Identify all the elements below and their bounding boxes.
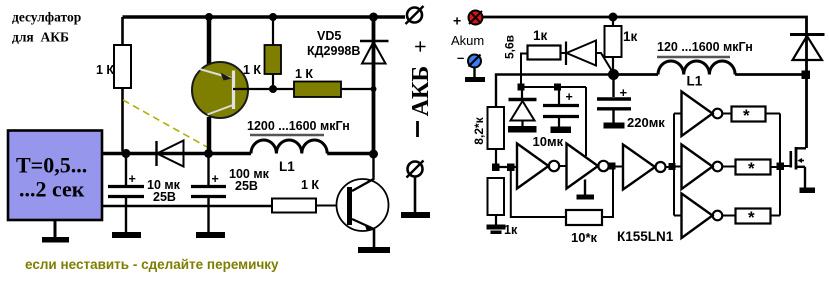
op-amp inverter U1E [682,145,723,190]
svg-text:*: * [748,159,755,178]
svg-text:Akum: Akum [451,33,484,48]
terminal -AKB output [407,161,424,178]
wire inv5 to R10 [722,166,735,168]
resistor R4 1 К [272,199,316,213]
wire Q1 collector to node B [207,117,212,154]
svg-text:+: + [212,172,219,186]
wire R11 to gate bus [771,215,781,217]
wire rail to R1 [121,17,124,45]
label underline L1 [250,134,324,137]
inductor L1 right [658,61,735,75]
wire terminal to bar [414,177,417,212]
transistor Q2 [337,154,389,231]
node M junction [554,84,561,91]
wire feedback left vertical [511,167,566,217]
ground Akum minus [465,68,485,83]
transistor Q3 mosfet [791,147,806,188]
svg-text:1к: 1к [504,223,518,237]
zener VD 5,6v [509,91,537,127]
label underline L1 right [657,56,730,59]
wire Q1 base [233,88,294,90]
op-amp inverter U1D [682,92,723,137]
wire R7 to ground [495,215,497,225]
wire inv1 to inv2 [559,165,567,167]
ground Q3 [800,188,816,194]
title десулфатор для АКБ [12,10,81,45]
wire R9 to gate bus [766,113,781,115]
svg-text:25В: 25В [235,179,258,193]
diode D1 [157,141,184,167]
resistor R8 10*к [566,210,602,225]
wire top rail [123,15,406,19]
svg-text:8,2*к: 8,2*к [472,116,486,144]
svg-text:1 К: 1 К [243,63,261,77]
svg-text:10мк: 10мк [533,134,564,149]
junction dot rail at R5 [609,13,618,22]
svg-text:*: * [743,106,750,125]
svg-text:АКБ: АКБ [408,66,434,117]
resistor R9 * [732,106,766,125]
wire inv4 to R9 [722,113,731,115]
wire to inv4 [674,113,682,115]
node C junction [369,150,378,159]
op-amp inverter U1F [682,194,723,239]
wire to inv6 [674,215,682,217]
svg-text:+: + [453,13,461,29]
wire inv3 out [666,166,675,168]
wire node F to inv1 [496,166,517,168]
ground C2 [196,232,225,238]
ground R7 [487,225,506,235]
ground timer box [42,221,69,243]
ground C1 [112,232,141,238]
label C2 100 мк 25В [229,167,270,193]
resistor R2 1 К [265,45,282,74]
inductor L1 left [251,140,327,154]
svg-text:+: + [620,85,628,100]
wire zener bus horizontal [521,86,586,88]
node G junction [507,164,515,172]
svg-text:десулфатор: десулфатор [12,10,81,25]
wire R3 to VD5 line [341,88,374,90]
svg-text:10*к: 10*к [571,230,598,245]
wire R8 to inv2 out [602,167,613,218]
transistor Q1 [192,62,248,118]
svg-text:VD5: VD5 [317,29,341,43]
op-amp inverter U1A [517,144,559,189]
ground zener [508,126,537,133]
svg-text:L1: L1 [687,74,703,89]
node B junction [204,149,213,158]
svg-text:КД2998В: КД2998В [307,44,360,58]
wire to R5 [612,17,614,26]
dashed link line [123,100,207,147]
ground C3 [604,123,625,129]
wire gate bus vertical [779,114,781,216]
svg-text:1к: 1к [533,28,548,43]
timer box T=0,5...2 сек [8,131,102,221]
svg-text:220мк: 220мк [627,115,665,130]
svg-text:1 К: 1 К [96,63,114,77]
ground C4 [551,127,572,134]
ground inv2 [577,180,595,200]
wire input bus vertical [673,114,675,216]
resistor R7 1к [488,178,505,215]
capacitor C1 10мк [108,154,144,233]
wire mid rail left [102,152,251,156]
wire R6 to node F [495,149,497,167]
diode D2 flyback [790,35,825,61]
wire lower rail timer to R4 [102,205,272,208]
wire to inv5 [674,166,682,168]
resistor R13 1к [528,46,561,60]
wire R4 to Q2 base [316,205,348,207]
svg-text:+: + [566,90,573,104]
svg-text:К155LN1: К155LN1 [617,229,674,244]
svg-text:1200 ...1600 мкГн: 1200 ...1600 мкГн [247,119,350,133]
ground bar terminal [401,212,430,218]
wire inductor to drain [735,73,806,76]
node J junction [777,163,785,171]
svg-text:1 К: 1 К [301,178,319,192]
junction dot top rail at Q1 [205,13,213,21]
node K junction [802,71,811,80]
svg-text:120 ...1600 мкГн: 120 ...1600 мкГн [657,40,753,54]
svg-text:+: + [129,172,136,186]
wire vcc rail right [496,75,613,108]
svg-text:1к: 1к [623,29,638,44]
wire R2 to base node [272,74,274,89]
svg-text:5,6в: 5,6в [503,35,517,59]
resistor R6 8,2к [488,107,505,149]
resistor R1 1K [114,45,131,88]
wire rail to Q1 emitter [207,17,212,64]
resistor R5 1к [605,26,622,57]
wire Q2 emitter to ground [373,229,376,247]
svg-text:...2 сек: ...2 сек [19,177,85,202]
node base junction [269,85,277,93]
wire inv6 to R11 [722,215,735,217]
wire R1 to node A [121,88,124,152]
node L junction [518,84,525,91]
capacitor C3 220мк [597,79,631,123]
junction dot top rail at R2 [269,13,277,21]
svg-text:25В: 25В [153,190,176,204]
wire inv2 vcc from zener [585,87,587,156]
diode VD5 [360,41,389,64]
wire top rail right [483,17,807,148]
label C1 10 мк 25В [147,178,181,204]
node E junction [608,69,619,80]
svg-text:1 К: 1 К [295,67,313,81]
node H junction [609,163,616,170]
svg-text:*: * [748,208,755,227]
node A junction [122,149,131,158]
svg-text:–: – [457,50,464,65]
wire vcc to inductor [614,73,659,76]
resistor R11 * [736,208,771,227]
resistor R10 * [736,159,771,178]
svg-text:Т=0,5...: Т=0,5... [16,153,87,178]
svg-text:для АКБ: для АКБ [12,30,69,45]
wire VD5 branch vertical [372,17,376,154]
svg-text:+: + [408,40,433,53]
wire gate [780,165,790,167]
terminal Akum minus blue [468,55,481,68]
capacitor C4 10мк [543,87,579,127]
node F junction [492,164,500,172]
wire inv2 to inv3 [609,166,624,168]
junction dot top rail at VD5 [369,13,378,22]
svg-text:L1: L1 [279,159,295,174]
wire rail to R2 [272,17,274,45]
wire R10 to gate bus [771,166,781,168]
node I junction [669,163,676,170]
op-amp inverter U1B [567,144,609,189]
wire L1 to node C [327,152,374,156]
junction dot R3-VD5 [371,86,377,92]
terminal Akum plus red [469,11,483,25]
svg-text:если неставить - сделайте пере: если неставить - сделайте перемичку [25,257,279,272]
wire R5 to node E [612,57,614,74]
op-amp inverter U1C [623,145,666,190]
ground Q2 [358,247,390,253]
terminal +AKB output [406,6,424,24]
resistor R3 1 К [294,82,341,98]
diode D3 [561,41,614,74]
capacitor C2 100мк [191,154,226,233]
wire zener node [521,54,528,88]
